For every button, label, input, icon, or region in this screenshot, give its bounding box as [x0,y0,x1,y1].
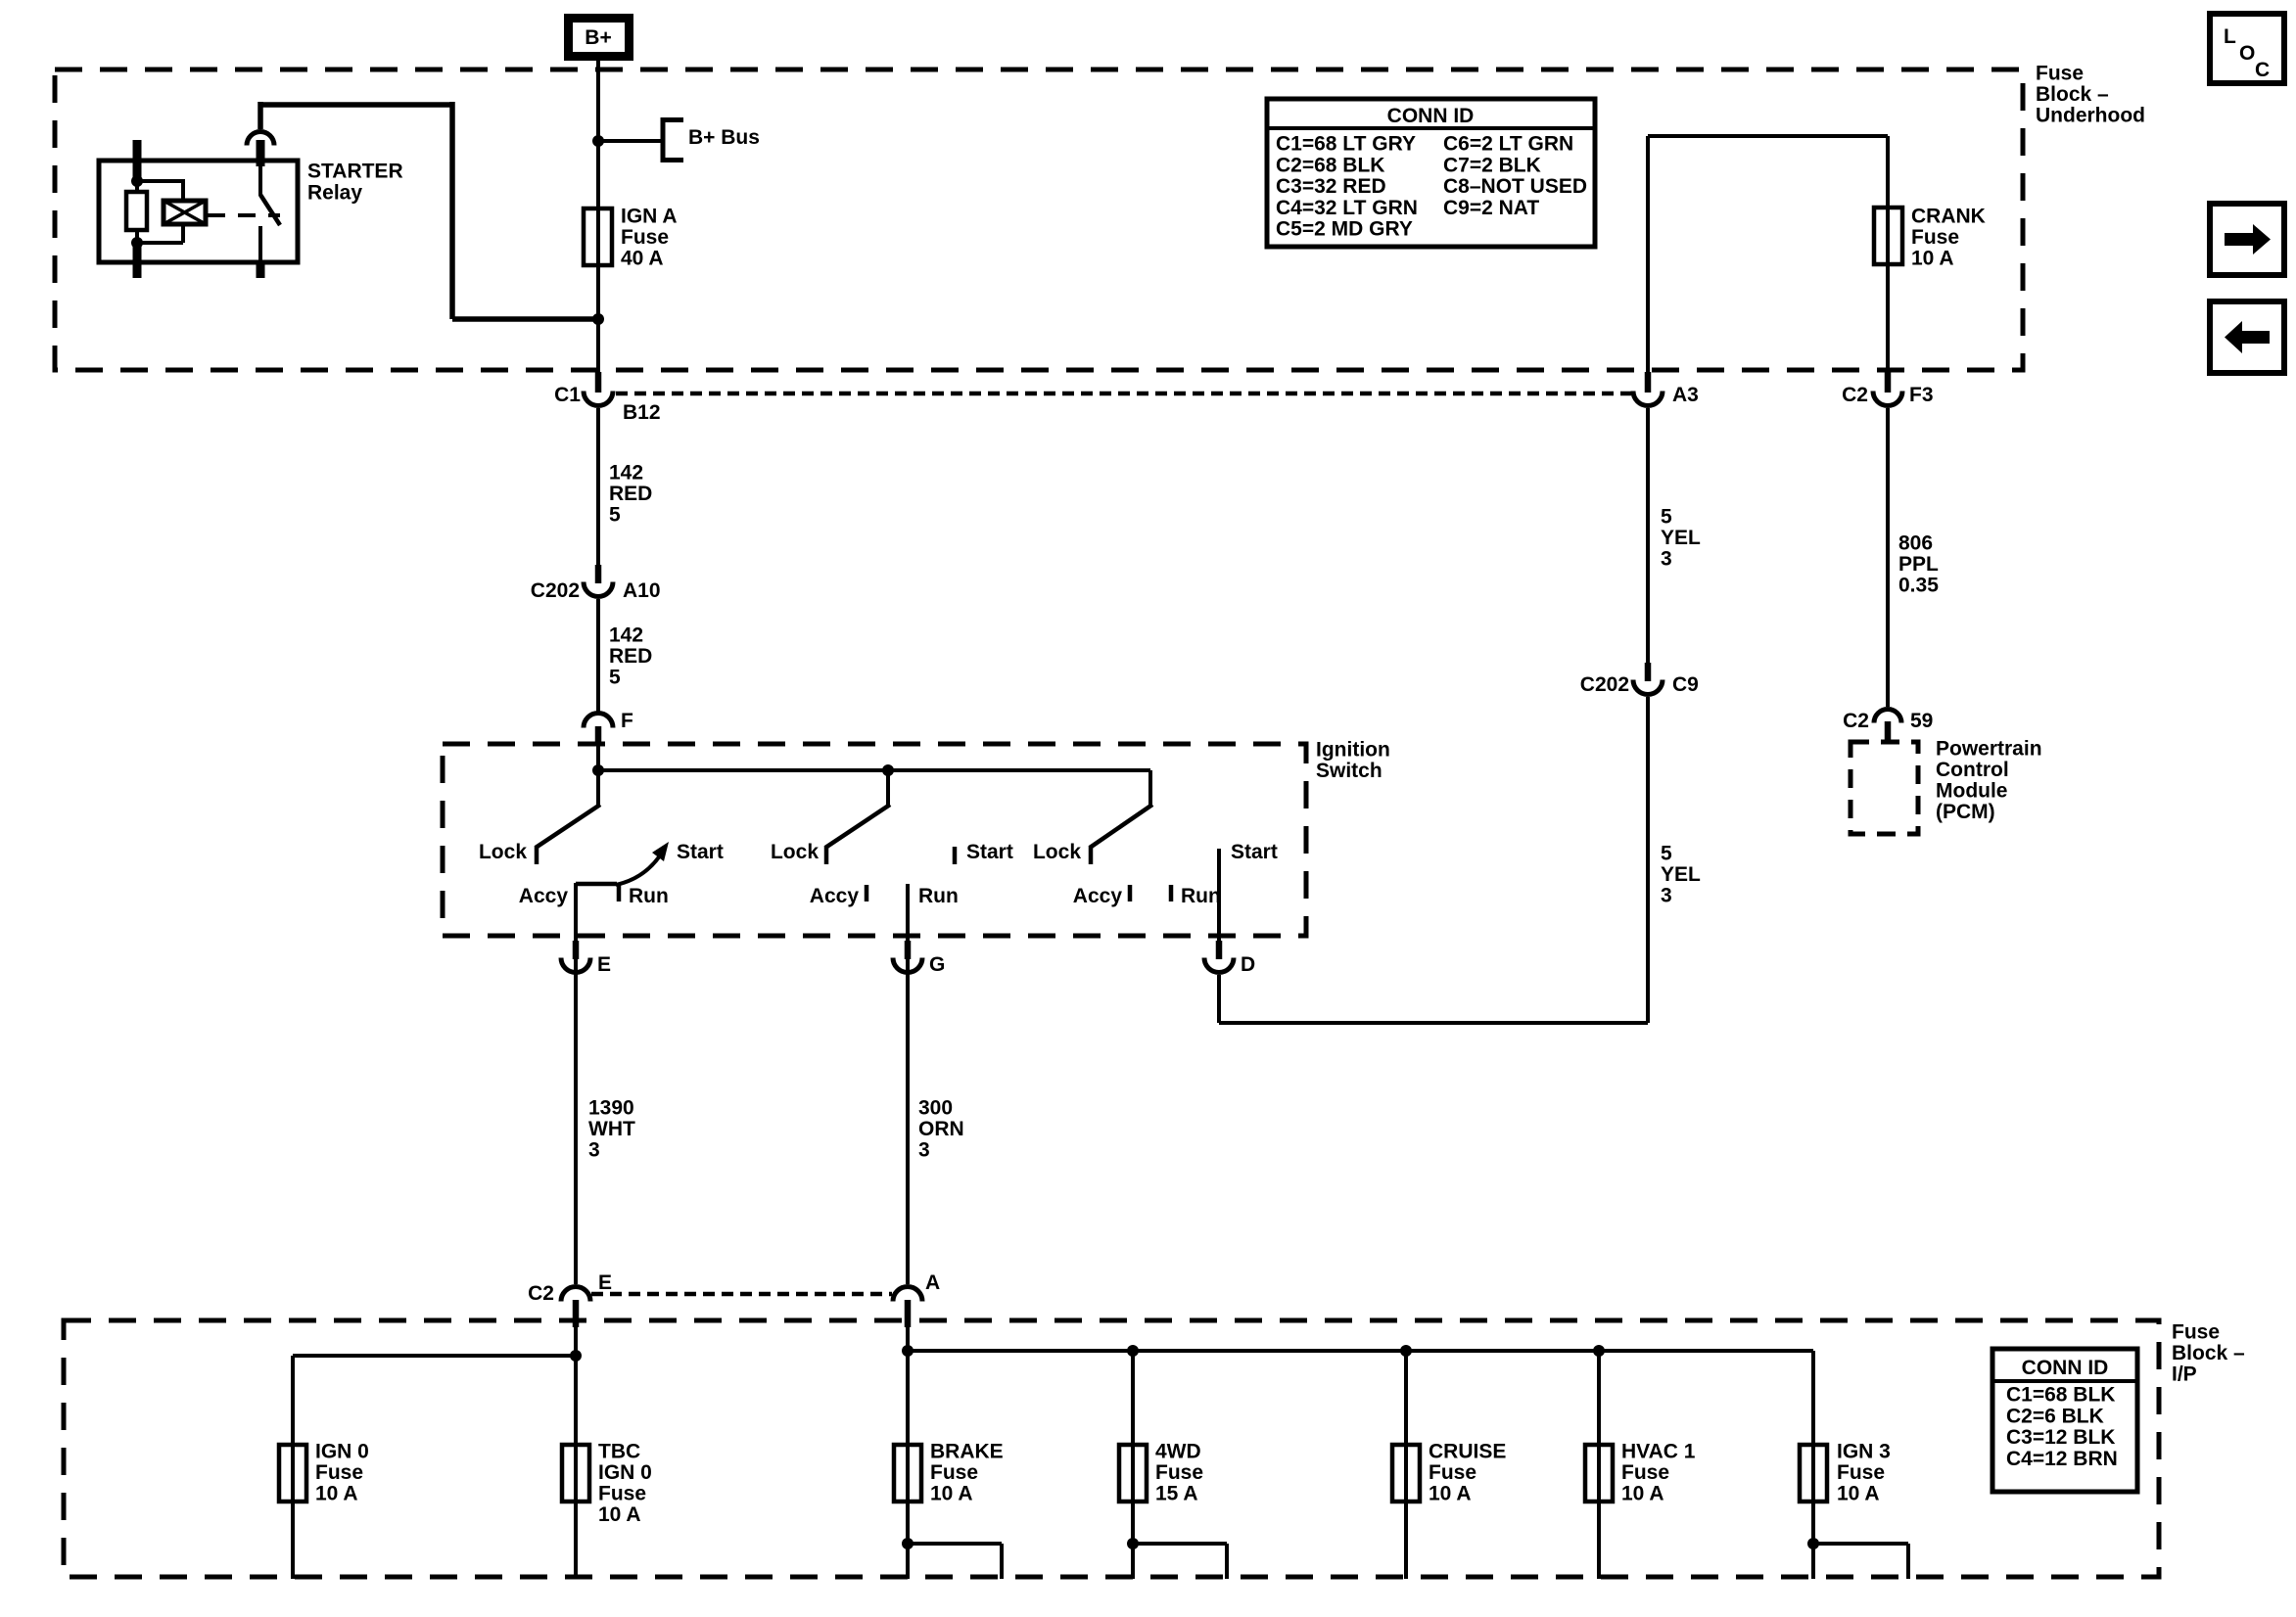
svg-text:CONN ID: CONN ID [1387,105,1475,127]
relay pin 1 (top left terminal) [133,140,142,182]
svg-text:0.35: 0.35 [1898,575,1939,597]
mechanical link (dashed) [208,213,280,217]
node BRAKE tap [902,1538,914,1549]
svg-text:Relay: Relay [307,182,362,205]
wire B+ vertical main [596,61,600,374]
svg-text:G: G [929,953,945,976]
wire HVAC 1 drop [1597,1351,1601,1501]
svg-text:B+ Bus: B+ Bus [688,126,760,149]
svg-text:40 A: 40 A [621,248,664,270]
relay coil (box with X) [164,201,206,224]
svg-text:C2=6 BLK: C2=6 BLK [2006,1405,2104,1427]
wire right bus [908,1349,1813,1353]
svg-text:Lock: Lock [771,841,819,863]
wire CRUISE drop [1404,1351,1408,1501]
svg-text:142: 142 [609,462,643,485]
svg-text:Ignition: Ignition [1316,739,1390,762]
wire BRAKE step [908,1542,1002,1546]
wire E into block [574,1327,578,1356]
svg-text:Start: Start [1231,841,1278,863]
connector pin F (ignition switch) [584,714,613,728]
fuse block - underhood enclosure (dashed) [55,69,2023,370]
svg-text:L: L [2224,25,2236,48]
starter relay box [99,161,298,262]
wire F into switch [596,744,600,770]
node 4WD tap [1127,1538,1139,1549]
switch wafer 1 accy arm [576,882,617,887]
svg-text:3: 3 [1661,885,1672,907]
contact Run 3 [1169,885,1174,901]
fuse CRANK 10A [1874,208,1902,264]
switch wafer 2 pole [886,770,890,806]
relay switch pole [258,164,262,196]
wire left bus [293,1354,576,1358]
fuse IGN 0 [279,1445,306,1501]
svg-text:300: 300 [918,1097,953,1120]
svg-text:F3: F3 [1909,384,1934,406]
svg-text:Powertrain: Powertrain [1936,738,2042,761]
svg-text:3: 3 [918,1139,930,1162]
contact Accy 3 [1128,885,1133,901]
switch wafer 1 start arc with arrow [616,850,664,885]
wire to B+ bus [598,139,663,143]
svg-text:IGN 0: IGN 0 [315,1441,369,1463]
ignition switch enclosure (dashed) [443,744,1306,936]
connector C2 pin 59 [1874,710,1901,723]
wire wafer1 output (Accy) to E [574,883,578,1284]
svg-text:1390: 1390 [588,1097,634,1120]
svg-text:Fuse: Fuse [1621,1461,1669,1484]
svg-text:5: 5 [609,667,621,689]
svg-text:3: 3 [1661,548,1672,571]
connector C2 pin F3 [1885,372,1892,393]
svg-text:Fuse: Fuse [1429,1461,1476,1484]
wire 4WD drop [1131,1351,1135,1501]
svg-text:C3=12 BLK: C3=12 BLK [2006,1426,2115,1449]
dotted connector line C1-A3 [616,392,1631,396]
svg-text:Underhood: Underhood [2036,105,2145,127]
svg-text:10 A: 10 A [1837,1483,1880,1505]
wire TBC out [574,1501,578,1579]
connector C1 pin B12 [595,372,602,393]
node switch wafer 2 feed [882,764,894,776]
contact Start 2 [953,847,958,864]
svg-text:F: F [621,710,633,732]
svg-text:TBC: TBC [598,1441,640,1463]
relay pin 2 (bottom left terminal) [133,241,142,278]
svg-text:D: D [1241,953,1255,976]
resistor (relay suppression) [135,181,139,192]
svg-text:YEL: YEL [1661,527,1701,549]
connector pin E [573,941,580,959]
node B+ bus tap junction [592,135,604,147]
switch wafer 3 pole [1148,770,1152,806]
connector pin G [905,941,912,959]
fuse IGN A 40A [584,208,612,265]
switch wafer 1 pole [596,770,600,806]
connector pin A [893,1287,922,1302]
wire A into block [906,1327,910,1501]
wire coil branch bottom [181,224,185,243]
wire 5 YEL upper [1646,408,1650,663]
node E bus junction [570,1350,582,1362]
wire relay to IGN A node [258,102,263,129]
svg-text:C3=32 RED: C3=32 RED [1276,175,1386,198]
connector arc at relay switch [247,132,274,146]
svg-text:806: 806 [1898,532,1933,555]
svg-text:C4=32 LT GRN: C4=32 LT GRN [1276,197,1418,219]
B+ Bus bracket terminal [661,117,666,162]
svg-text:3: 3 [588,1139,600,1162]
wire 142 RED lower [596,599,600,712]
svg-text:Start: Start [677,841,724,863]
svg-text:Control: Control [1936,759,2009,781]
relay pin 3 (bottom terminal) [257,260,265,278]
svg-text:Fuse: Fuse [621,226,669,249]
svg-text:O: O [2239,42,2255,65]
svg-text:C2=68 BLK: C2=68 BLK [1276,154,1384,176]
svg-text:C9=2 NAT: C9=2 NAT [1443,197,1539,219]
svg-text:Fuse: Fuse [1837,1461,1885,1484]
relay switch arm [260,195,280,225]
svg-text:Block –: Block – [2172,1342,2245,1364]
svg-text:C202: C202 [531,579,580,602]
wire wafer3 output (Start) to D [1217,849,1221,941]
wire 4WD out [1131,1501,1135,1579]
node A bus junction [902,1345,914,1357]
CONN ID table (I/P) [1992,1349,2137,1492]
svg-text:Fuse: Fuse [598,1483,646,1505]
svg-text:142: 142 [609,624,643,647]
connector C2 pin E [561,1287,590,1302]
powertrain control module box (dashed) [1851,742,1918,834]
wire CRUISE out [1404,1501,1408,1579]
svg-text:C1=68 BLK: C1=68 BLK [2006,1384,2115,1407]
svg-text:RED: RED [609,645,652,668]
svg-text:10 A: 10 A [315,1483,358,1505]
svg-text:Switch: Switch [1316,760,1382,782]
B+ power terminal [564,14,633,61]
svg-text:IGN 3: IGN 3 [1837,1441,1891,1463]
wire IGN 3 drop [1811,1351,1815,1501]
node relay coil top [131,175,143,187]
dotted connector line E-A [591,1292,892,1297]
wire BRAKE out [906,1501,910,1579]
connector pin A3 [1645,372,1652,393]
svg-text:C8–NOT USED: C8–NOT USED [1443,175,1587,198]
wire yel horizontal to D [1219,1021,1648,1025]
svg-text:5: 5 [1661,843,1672,865]
svg-text:C7=2 BLK: C7=2 BLK [1443,154,1541,176]
wire crank feed top [1648,134,1888,138]
fuse IGN 3 [1800,1445,1827,1501]
svg-text:Accy: Accy [1073,885,1123,907]
svg-text:Fuse: Fuse [2036,63,2084,85]
node switch wafer 1 feed [592,764,604,776]
svg-text:10 A: 10 A [1911,248,1954,270]
wire HVAC 1 out [1597,1501,1601,1579]
fuse block - I/P enclosure (dashed) [64,1320,2159,1577]
svg-text:C: C [2255,59,2270,81]
svg-text:BRAKE: BRAKE [930,1441,1004,1463]
svg-text:5: 5 [609,504,621,527]
fuse 4WD [1119,1445,1147,1501]
svg-text:E: E [598,1271,612,1294]
svg-text:ORN: ORN [918,1118,964,1140]
svg-text:C1: C1 [554,384,581,406]
wire 806 PPL [1886,408,1890,707]
svg-text:Module: Module [1936,780,2008,803]
svg-text:E: E [597,953,611,976]
node HVAC 1 bus junction [1593,1345,1605,1357]
svg-text:Lock: Lock [479,841,527,863]
svg-text:Fuse: Fuse [2172,1321,2220,1344]
wire IGN 3 out [1811,1501,1815,1579]
svg-text:B+: B+ [585,26,611,49]
svg-text:4WD: 4WD [1155,1441,1201,1463]
svg-text:STARTER: STARTER [307,161,403,183]
connector C202 pin C9 [1645,663,1652,681]
node relay coil bottom [131,237,143,249]
contact Accy 2 [865,885,869,901]
svg-text:Fuse: Fuse [1155,1461,1203,1484]
fuse BRAKE [894,1445,921,1501]
svg-text:Fuse: Fuse [930,1461,978,1484]
fuse TBC IGN 0 [562,1445,589,1501]
svg-text:59: 59 [1910,710,1933,732]
wire 142 RED upper [596,408,600,565]
node IGN 3 tap [1807,1538,1819,1549]
svg-text:15 A: 15 A [1155,1483,1198,1505]
wire IGN 0 drop [291,1356,295,1501]
CONN ID table (underhood) [1267,99,1595,247]
node CRUISE bus junction [1400,1345,1412,1357]
back arrow box [2210,301,2284,373]
svg-text:10 A: 10 A [930,1483,973,1505]
svg-text:I/P: I/P [2172,1363,2197,1386]
svg-text:CRANK: CRANK [1911,206,1986,228]
svg-text:A10: A10 [623,579,661,602]
node IGN A / relay wire junction [592,313,604,325]
node 4WD bus junction [1127,1345,1139,1357]
wire TBC drop [574,1356,578,1501]
svg-text:B12: B12 [623,401,661,424]
svg-text:RED: RED [609,483,652,505]
contact Run 1 [617,884,622,901]
svg-text:C6=2 LT GRN: C6=2 LT GRN [1443,133,1573,156]
fuse HVAC 1 [1585,1445,1613,1501]
svg-text:Accy: Accy [810,885,860,907]
svg-text:C5=2 MD GRY: C5=2 MD GRY [1276,218,1413,241]
svg-text:Run: Run [918,885,959,907]
svg-text:(PCM): (PCM) [1936,801,1995,823]
connector C202 pin A10 [595,565,602,583]
wire ignition feed bus [598,768,1150,772]
fuse CRUISE [1392,1445,1420,1501]
svg-text:Accy: Accy [519,885,569,907]
svg-text:Start: Start [966,841,1013,863]
svg-text:PPL: PPL [1898,553,1939,576]
svg-text:C2: C2 [1842,384,1868,406]
svg-text:5: 5 [1661,506,1672,529]
svg-text:Run: Run [629,885,669,907]
LOC reference box [2210,14,2284,83]
svg-text:Fuse: Fuse [1911,226,1959,249]
relay switch contact [258,226,262,262]
svg-text:IGN 0: IGN 0 [598,1461,652,1484]
svg-text:10 A: 10 A [598,1503,641,1526]
svg-text:C2: C2 [1843,710,1869,732]
svg-text:10 A: 10 A [1621,1483,1664,1505]
svg-text:C1=68 LT GRY: C1=68 LT GRY [1276,133,1416,156]
svg-text:C4=12 BRN: C4=12 BRN [2006,1448,2118,1470]
svg-text:YEL: YEL [1661,863,1701,886]
wire IGN 3 step [1813,1542,1908,1546]
svg-text:A: A [925,1271,940,1294]
svg-text:C9: C9 [1672,673,1699,696]
svg-text:Fuse: Fuse [315,1461,363,1484]
wire 4WD step [1133,1542,1227,1546]
svg-text:IGN A: IGN A [621,206,678,228]
wire wafer2 output (Run) to G [906,884,910,1284]
forward arrow box [2210,204,2284,275]
wire IGN 0 out [291,1501,295,1579]
svg-text:C2: C2 [528,1282,554,1305]
svg-text:Run: Run [1181,885,1221,907]
relay switch common terminal [257,140,265,166]
wire coil branch top [137,179,183,183]
svg-text:HVAC 1: HVAC 1 [1621,1441,1696,1463]
svg-text:CONN ID: CONN ID [2022,1357,2109,1379]
connector pin D [1216,941,1223,959]
svg-text:10 A: 10 A [1429,1483,1472,1505]
svg-text:C202: C202 [1580,673,1629,696]
svg-text:WHT: WHT [588,1118,635,1140]
svg-text:Lock: Lock [1033,841,1081,863]
svg-text:Block –: Block – [2036,83,2109,106]
svg-text:A3: A3 [1672,384,1699,406]
wire crank fuse drop [1886,136,1890,374]
svg-text:CRUISE: CRUISE [1429,1441,1506,1463]
wire 5 YEL lower [1646,697,1650,1023]
